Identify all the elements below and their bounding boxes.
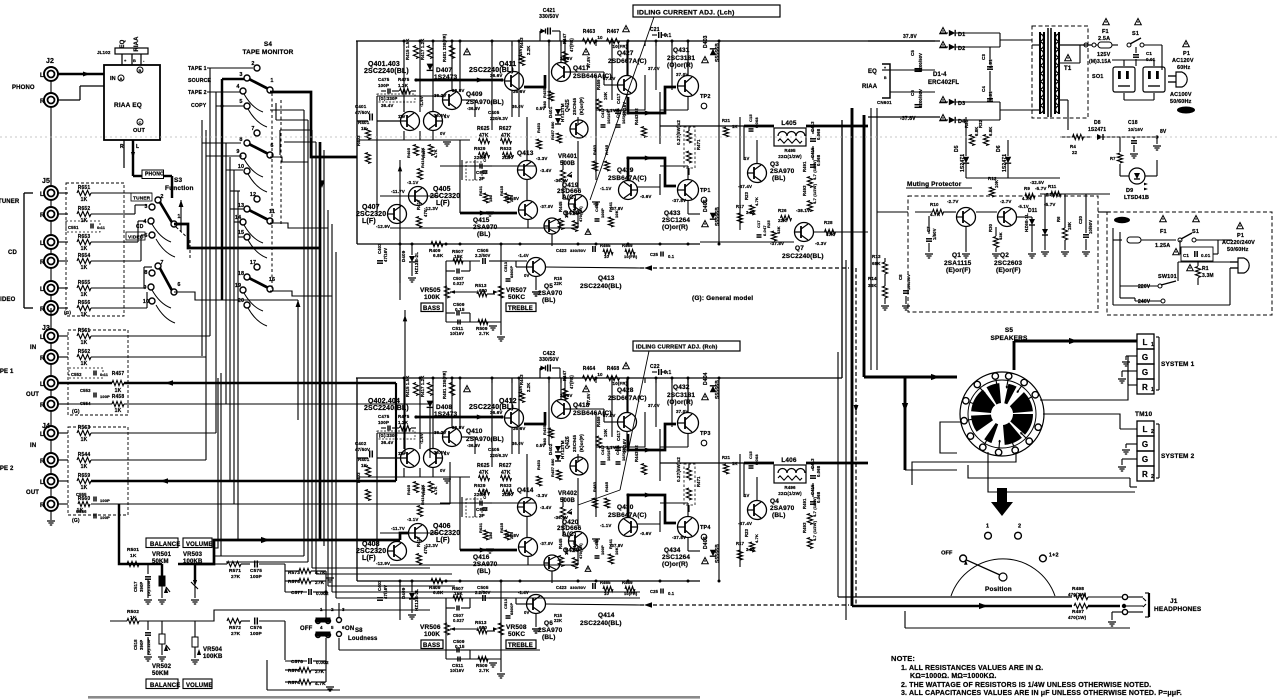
wire Q5 to dashed — [545, 267, 640, 268]
svg-text:Q431: Q431 — [673, 47, 690, 54]
diode D10 — [1042, 229, 1048, 235]
svg-text:27K: 27K — [231, 631, 241, 637]
svg-text:C20: C20 — [1078, 215, 1083, 224]
svg-text:8200/50V: 8200/50V — [918, 53, 923, 72]
svg-text:S5: S5 — [1005, 327, 1013, 334]
svg-text:-36.8V: -36.8V — [505, 533, 519, 538]
svg-text:47/16V: 47/16V — [383, 248, 388, 262]
capacitor C575 100P — [254, 561, 256, 568]
svg-text:100/50V: 100/50V — [906, 274, 911, 290]
svg-text:47K: 47K — [479, 133, 489, 139]
svg-text:A: A — [119, 76, 122, 81]
svg-text:R481 330(FR): R481 330(FR) — [442, 33, 447, 62]
svg-text:C551: C551 — [68, 225, 79, 230]
svg-text:R28: R28 — [824, 220, 833, 225]
wire rotor S4-6 to bundle — [270, 157, 308, 162]
svg-text:10: 10 — [238, 164, 244, 170]
wire thick driver to output PNP — [628, 158, 676, 186]
svg-text:R574: R574 — [288, 680, 300, 686]
svg-text:D1-4: D1-4 — [933, 72, 947, 78]
pot VR502 50KM — [159, 634, 165, 644]
svg-text:-5.1V: -5.1V — [1018, 204, 1029, 209]
svg-text:EQ: EQ — [868, 69, 877, 75]
svg-text:47K: 47K — [501, 470, 511, 476]
svg-text:1.25A: 1.25A — [1155, 243, 1170, 249]
svg-text:4.7K: 4.7K — [434, 486, 438, 495]
junction dots top rail — [403, 40, 406, 43]
svg-text:PHONO: PHONO — [145, 172, 164, 178]
svg-text:R14: R14 — [868, 276, 877, 281]
switch S5 black rotor ring — [987, 383, 1002, 404]
svg-text:(G):330P: (G):330P — [379, 96, 397, 101]
svg-text:VR401: VR401 — [558, 154, 578, 160]
svg-text:L406: L406 — [781, 457, 797, 464]
svg-text:15K: 15K — [454, 591, 463, 596]
svg-text:2SC1264: 2SC1264 — [662, 554, 690, 561]
svg-text:2.2K: 2.2K — [526, 383, 531, 392]
svg-text:Q7: Q7 — [795, 245, 804, 252]
svg-text:R471: R471 — [696, 476, 701, 487]
wire input vertical — [376, 433, 378, 553]
jack J1 symbol — [1143, 598, 1146, 601]
svg-text:0.047: 0.047 — [762, 225, 767, 236]
svg-text:1/50V: 1/50V — [932, 228, 937, 240]
svg-text:S3: S3 — [174, 177, 182, 184]
svg-text:-3.1V: -3.1V — [407, 180, 419, 185]
svg-text:1: 1 — [1151, 342, 1154, 348]
wire VIDEO L to S3 — [124, 287, 144, 289]
svg-text:Q405: Q405 — [433, 186, 451, 193]
svg-text:0.5V: 0.5V — [536, 443, 545, 448]
wire Q429 to Q433 — [637, 523, 660, 525]
svg-text:S1: S1 — [1192, 229, 1199, 235]
svg-text:36.6V: 36.6V — [513, 89, 526, 94]
svg-text:D409: D409 — [401, 250, 406, 262]
svg-text:3: 3 — [239, 72, 242, 78]
svg-text:R445: R445 — [558, 538, 563, 549]
wire thick signal path — [416, 416, 502, 419]
svg-text:R656: R656 — [78, 300, 91, 306]
svg-text:22K: 22K — [554, 281, 562, 286]
wire top rail — [356, 40, 935, 42]
transistor Q6 2SA970 (BL) — [527, 595, 546, 614]
svg-text:100P: 100P — [600, 208, 605, 218]
svg-text:37.8V: 37.8V — [586, 56, 591, 68]
svg-text:470: 470 — [423, 546, 428, 554]
svg-text:R417: R417 — [416, 536, 421, 547]
svg-text:R455: R455 — [542, 87, 547, 98]
svg-text:C417: C417 — [600, 107, 605, 118]
wire jack chain J5 to J3 — [50, 308, 52, 329]
svg-text:R660: R660 — [78, 496, 91, 502]
badge oval export — [1114, 217, 1130, 223]
svg-text:22: 22 — [1072, 150, 1078, 155]
dashed box J4 resistors — [68, 427, 128, 515]
feedback tone network wires — [399, 581, 401, 598]
svg-text:(BL): (BL) — [772, 512, 786, 519]
svg-text:2.2K: 2.2K — [502, 492, 513, 497]
junction dots bottom rail — [399, 243, 402, 246]
label VIDEO S3 — [126, 232, 145, 240]
svg-text:C475: C475 — [378, 77, 390, 82]
resistor R416 2.2K vertical — [417, 506, 422, 517]
svg-text:R655: R655 — [78, 280, 91, 286]
transistor Q433 2SC1264 (O)or(R) — [678, 180, 699, 201]
svg-text:(G): (G) — [72, 409, 80, 415]
svg-text:37.0V: 37.0V — [603, 76, 616, 81]
resistor R416 2.2K vertical — [417, 169, 422, 180]
diode D407 1S2473 — [427, 64, 434, 71]
fuse F1 1.25A export — [1160, 216, 1167, 222]
wire S5 right terminals to system — [1040, 356, 1128, 400]
svg-text:330/50V: 330/50V — [570, 248, 586, 253]
dashed box input resistors R651-R656 — [66, 183, 124, 316]
svg-text:2SA970: 2SA970 — [770, 505, 795, 512]
wire staircase joints — [220, 373, 222, 556]
svg-text:47/50V: 47/50V — [355, 110, 370, 115]
svg-text:500B: 500B — [560, 498, 575, 504]
svg-text:1K: 1K — [81, 246, 88, 252]
wire top rail — [356, 377, 842, 379]
wire Q7 row — [756, 241, 758, 243]
svg-text:AC120V: AC120V — [1172, 58, 1194, 64]
wire output node column — [644, 412, 646, 447]
svg-text:-1.1V: -1.1V — [600, 186, 612, 191]
svg-text:TP2: TP2 — [700, 94, 711, 100]
svg-text:Q5: Q5 — [544, 283, 553, 290]
svg-text:R457 880: R457 880 — [550, 458, 555, 477]
svg-text:47K: 47K — [826, 232, 835, 237]
svg-text:R575: R575 — [288, 579, 300, 585]
wire Q433 emitter bottom — [687, 200, 689, 214]
svg-text:1S2471: 1S2471 — [960, 154, 966, 172]
wire bundle top corners — [270, 109, 304, 111]
svg-text:+: + — [884, 66, 886, 70]
dashed gang line S4 — [271, 93, 273, 289]
svg-text:36.8V: 36.8V — [452, 88, 465, 93]
svg-text:-37.8V: -37.8V — [672, 198, 686, 203]
wire input row — [377, 120, 401, 122]
svg-text:6.8K: 6.8K — [433, 590, 444, 595]
svg-text:1+2: 1+2 — [1049, 552, 1059, 558]
svg-text:0.15: 0.15 — [455, 307, 465, 312]
svg-text:HZ68-1L: HZ68-1L — [1024, 213, 1029, 232]
svg-text:470(FR): 470(FR) — [578, 206, 583, 222]
svg-text:J2: J2 — [46, 58, 54, 65]
svg-text:R417: R417 — [416, 199, 421, 210]
svg-text:47/16V: 47/16V — [383, 585, 388, 599]
svg-text:R467: R467 — [607, 29, 620, 35]
svg-text:R483: R483 — [592, 481, 597, 492]
svg-text:10(FR): 10(FR) — [624, 254, 638, 259]
svg-text:1S2471: 1S2471 — [1002, 154, 1008, 172]
svg-text:-37.8V: -37.8V — [610, 543, 623, 548]
svg-text:2SC3181: 2SC3181 — [667, 55, 695, 62]
svg-text:2SC945: 2SC945 — [572, 97, 577, 115]
wire CD R to S3 — [124, 260, 141, 262]
svg-text:2.7K: 2.7K — [479, 331, 490, 336]
svg-text:RIAA EQ: RIAA EQ — [114, 102, 142, 109]
svg-text:1K: 1K — [81, 197, 88, 203]
wire mid rails — [357, 139, 470, 141]
svg-text:-36.6V: -36.6V — [467, 443, 480, 448]
svg-text:4.7 (1/2W): 4.7 (1/2W) — [812, 520, 817, 541]
dashed return wire — [640, 267, 849, 269]
svg-text:C556: C556 — [76, 509, 87, 514]
junction dots signal path — [414, 78, 417, 81]
wire VR401 connect — [562, 160, 564, 170]
transistor Q403 — [424, 112, 443, 131]
svg-text:AC220/240V: AC220/240V — [1222, 240, 1255, 246]
svg-text:R502: R502 — [127, 609, 139, 615]
svg-text:1K: 1K — [81, 340, 88, 346]
svg-text:L(F): L(F) — [362, 555, 376, 562]
plug P1 120V — [1183, 41, 1190, 47]
svg-text:R633: R633 — [500, 146, 512, 151]
wire J3 OUT R — [58, 403, 112, 405]
grounds SYSTEM 2 — [1126, 443, 1137, 445]
svg-text:-36.6V: -36.6V — [554, 178, 568, 183]
wire Q429 to Q433 — [637, 186, 660, 188]
wire left rail — [356, 41, 358, 244]
svg-text:VR507: VR507 — [506, 287, 527, 294]
svg-text:36.0V: 36.0V — [512, 441, 524, 446]
resistor R409 6.8K on rail — [431, 241, 443, 246]
wire S5 bottom bus — [905, 469, 957, 471]
svg-text:36.4V: 36.4V — [381, 440, 394, 445]
wire Q427 emitter chain — [626, 432, 628, 447]
svg-text:37.8V: 37.8V — [518, 48, 523, 60]
svg-text:Q414: Q414 — [598, 612, 615, 619]
svg-text:BASS: BASS — [423, 306, 440, 312]
svg-text:PHONO: PHONO — [12, 85, 35, 91]
svg-text:0.11: 0.11 — [97, 225, 106, 230]
wire thick output to bus — [806, 125, 868, 128]
wire bundle bottom fanout — [214, 555, 304, 557]
svg-text:500B: 500B — [560, 161, 575, 167]
svg-text:R561: R561 — [78, 328, 91, 334]
svg-text:R403: R403 — [356, 472, 361, 483]
svg-text:6: 6 — [177, 282, 180, 288]
wire Q415 Q419 bottom — [527, 557, 529, 565]
svg-text:R491: R491 — [802, 161, 807, 172]
svg-text:R481 330(FR): R481 330(FR) — [442, 370, 447, 399]
svg-text:SYSTEM 1: SYSTEM 1 — [1161, 361, 1195, 368]
transistor Q434 2SC1264 (O)or(R) — [678, 517, 699, 538]
svg-text:(G): General model: (G): General model — [692, 295, 753, 302]
secondary 8V rail — [1060, 136, 1092, 138]
svg-text:Q415: Q415 — [473, 217, 490, 224]
svg-text:-11.7V: -11.7V — [391, 189, 405, 194]
arrow up on bundle — [296, 300, 301, 307]
svg-text:OUT: OUT — [133, 128, 146, 134]
bracket J5 left — [23, 193, 25, 308]
svg-text:Q413: Q413 — [598, 275, 615, 282]
svg-text:1V: 1V — [444, 451, 450, 456]
svg-text:R572: R572 — [229, 625, 241, 631]
svg-text:R459: R459 — [596, 416, 601, 427]
svg-text:100K: 100K — [424, 294, 440, 301]
svg-text:NOTE:: NOTE: — [891, 654, 915, 663]
svg-text:C513: C513 — [503, 261, 508, 272]
svg-text:10K: 10K — [994, 180, 999, 188]
svg-text:D8: D8 — [1094, 120, 1101, 126]
svg-text:R445: R445 — [558, 201, 563, 212]
svg-text:R443: R443 — [519, 37, 524, 48]
svg-text:SYSTEM 2: SYSTEM 2 — [1161, 453, 1195, 460]
wire bias dashes — [461, 160, 463, 180]
svg-text:470(FR): 470(FR) — [578, 543, 583, 559]
svg-text:SW101: SW101 — [1158, 274, 1177, 280]
svg-text:37.0V: 37.0V — [603, 413, 616, 418]
svg-text:TREBLE: TREBLE — [508, 306, 533, 312]
svg-text:C518: C518 — [133, 639, 138, 650]
svg-text:-37.4V: -37.4V — [738, 521, 752, 526]
svg-text:4.7K: 4.7K — [434, 149, 438, 158]
svg-text:JL102: JL102 — [97, 50, 111, 55]
svg-text:1K: 1K — [115, 408, 122, 414]
wire S8 to right — [338, 638, 340, 650]
node PHONO boxed label — [142, 170, 164, 179]
svg-text:R633: R633 — [500, 483, 512, 488]
svg-text:36.0V: 36.0V — [512, 104, 524, 109]
svg-text:C447: C447 — [482, 151, 487, 162]
svg-text:47(FR): 47(FR) — [569, 375, 574, 389]
warning mid — [583, 386, 590, 392]
svg-text:10: 10 — [597, 35, 603, 40]
wire S4 row TAPE2 — [207, 91, 240, 93]
svg-text:Q401.403: Q401.403 — [368, 61, 400, 68]
wire Q413 riser — [526, 454, 528, 497]
svg-text:1V: 1V — [400, 451, 405, 456]
transistor Q2 2SC2603 — [998, 208, 1017, 227]
svg-text:-5.7V: -5.7V — [1044, 202, 1056, 207]
svg-text:2. THE WATTAGE OF RESISTORS IS: 2. THE WATTAGE OF RESISTORS IS 1/4W UNLE… — [901, 682, 1151, 689]
svg-text:37.8V: 37.8V — [518, 385, 523, 397]
connector JL102 header bar — [115, 48, 148, 54]
svg-text:330/50V: 330/50V — [539, 357, 559, 363]
svg-text:10: 10 — [143, 299, 149, 305]
svg-text:100P: 100P — [600, 545, 605, 555]
wire Q417 to Q427 — [570, 71, 604, 73]
box IDLING CURRENT ADJ (Lch) — [633, 5, 780, 17]
label VOLUME boxed lower — [183, 679, 212, 689]
svg-text:C554: C554 — [80, 401, 91, 406]
svg-text:G: G — [1142, 368, 1148, 377]
svg-text:2.2/50V: 2.2/50V — [475, 253, 491, 258]
svg-text:C405: C405 — [488, 447, 500, 452]
svg-text:100P: 100P — [250, 574, 262, 580]
wire bottom rail — [357, 243, 700, 245]
svg-text:50KM: 50KM — [152, 671, 169, 677]
wire bias dashes — [461, 497, 463, 517]
terminal block SYSTEM 1 — [1137, 334, 1154, 349]
svg-text:2SC2240(BL): 2SC2240(BL) — [580, 283, 622, 290]
bus dashed vertical return — [855, 268, 857, 604]
pot VR504 100KB — [194, 621, 196, 637]
svg-text:TUNER: TUNER — [0, 199, 20, 205]
wire CD L to S3 — [124, 241, 138, 243]
svg-text:Q402.404: Q402.404 — [368, 398, 400, 405]
svg-text:Q409: Q409 — [466, 91, 483, 98]
wire EQ power feed — [890, 69, 935, 71]
svg-text:C401: C401 — [355, 104, 367, 109]
svg-text:-1.4V: -1.4V — [518, 253, 529, 258]
wire output verticals — [743, 126, 745, 160]
svg-text:4.7K: 4.7K — [754, 534, 759, 543]
svg-text:10K: 10K — [614, 547, 619, 555]
svg-text:1K: 1K — [81, 292, 88, 298]
svg-text:0V: 0V — [440, 468, 445, 473]
svg-text:R23: R23 — [744, 191, 749, 200]
svg-text:2SC1264: 2SC1264 — [662, 217, 690, 224]
grounds SYSTEM 1 — [1126, 355, 1137, 357]
wires S8 — [325, 613, 327, 618]
svg-text:100P: 100P — [378, 420, 389, 425]
svg-text:C15: C15 — [748, 114, 753, 122]
svg-text:(BL): (BL) — [477, 231, 491, 238]
bus thin verticals — [837, 352, 839, 597]
svg-text:R10: R10 — [930, 202, 939, 207]
svg-text:4.7K: 4.7K — [930, 212, 941, 217]
svg-text:R458: R458 — [112, 394, 125, 400]
svg-text:OUT: OUT — [26, 490, 39, 496]
svg-text:R571: R571 — [229, 568, 241, 574]
svg-text:R401: R401 — [358, 120, 370, 125]
svg-text:2.7K: 2.7K — [479, 668, 490, 673]
wire PHONO L to RIAA IN — [58, 73, 104, 75]
svg-text:R654: R654 — [78, 253, 91, 259]
wires headphone contacts — [1088, 596, 1122, 598]
svg-text:C18: C18 — [1128, 120, 1138, 126]
svg-text:(M)3.15A: (M)3.15A — [1089, 59, 1111, 65]
label VOLUME boxed — [183, 538, 212, 548]
wire Q415 Q419 bottom — [527, 220, 529, 228]
svg-text:R496: R496 — [784, 485, 796, 490]
capacitor C511 10/16V — [457, 657, 459, 662]
wire balance lower — [158, 620, 214, 622]
svg-text:100KB: 100KB — [203, 654, 223, 660]
svg-text:5: 5 — [144, 233, 147, 239]
svg-text:C8: C8 — [898, 274, 903, 280]
switch S3 lever — [160, 202, 172, 223]
svg-text:Loudness: Loudness — [348, 636, 378, 642]
svg-text:-5.7V: -5.7V — [1035, 186, 1047, 191]
wire JL102 legs — [121, 54, 123, 65]
wire output to L filter — [660, 125, 700, 127]
svg-text:S5566B: S5566B — [715, 544, 721, 563]
svg-text:C576: C576 — [250, 625, 262, 631]
wire S4 row TAPE1 — [207, 67, 253, 69]
svg-text:D409: D409 — [401, 587, 406, 599]
transformer winding bumps left — [1040, 34, 1044, 41]
svg-text:VR504: VR504 — [203, 647, 223, 653]
svg-text:Function: Function — [165, 185, 194, 192]
svg-text:C25: C25 — [650, 252, 659, 257]
resistor R572 27K — [227, 618, 241, 623]
svg-text:36.4V: 36.4V — [381, 103, 394, 108]
svg-text:(O)or(R): (O)or(R) — [667, 399, 693, 406]
warning small mid — [585, 566, 591, 571]
svg-text:36.6V: 36.6V — [490, 73, 503, 78]
svg-text:-38.1V: -38.1V — [796, 208, 810, 213]
svg-text:100P: 100P — [250, 631, 262, 637]
svg-text:22K: 22K — [778, 218, 787, 223]
svg-text:TAPE MONITOR: TAPE MONITOR — [242, 49, 293, 56]
wires export entry — [1112, 228, 1114, 305]
dashed box AC220/240 export — [1107, 212, 1272, 315]
wire T1 taps — [1059, 44, 1092, 46]
